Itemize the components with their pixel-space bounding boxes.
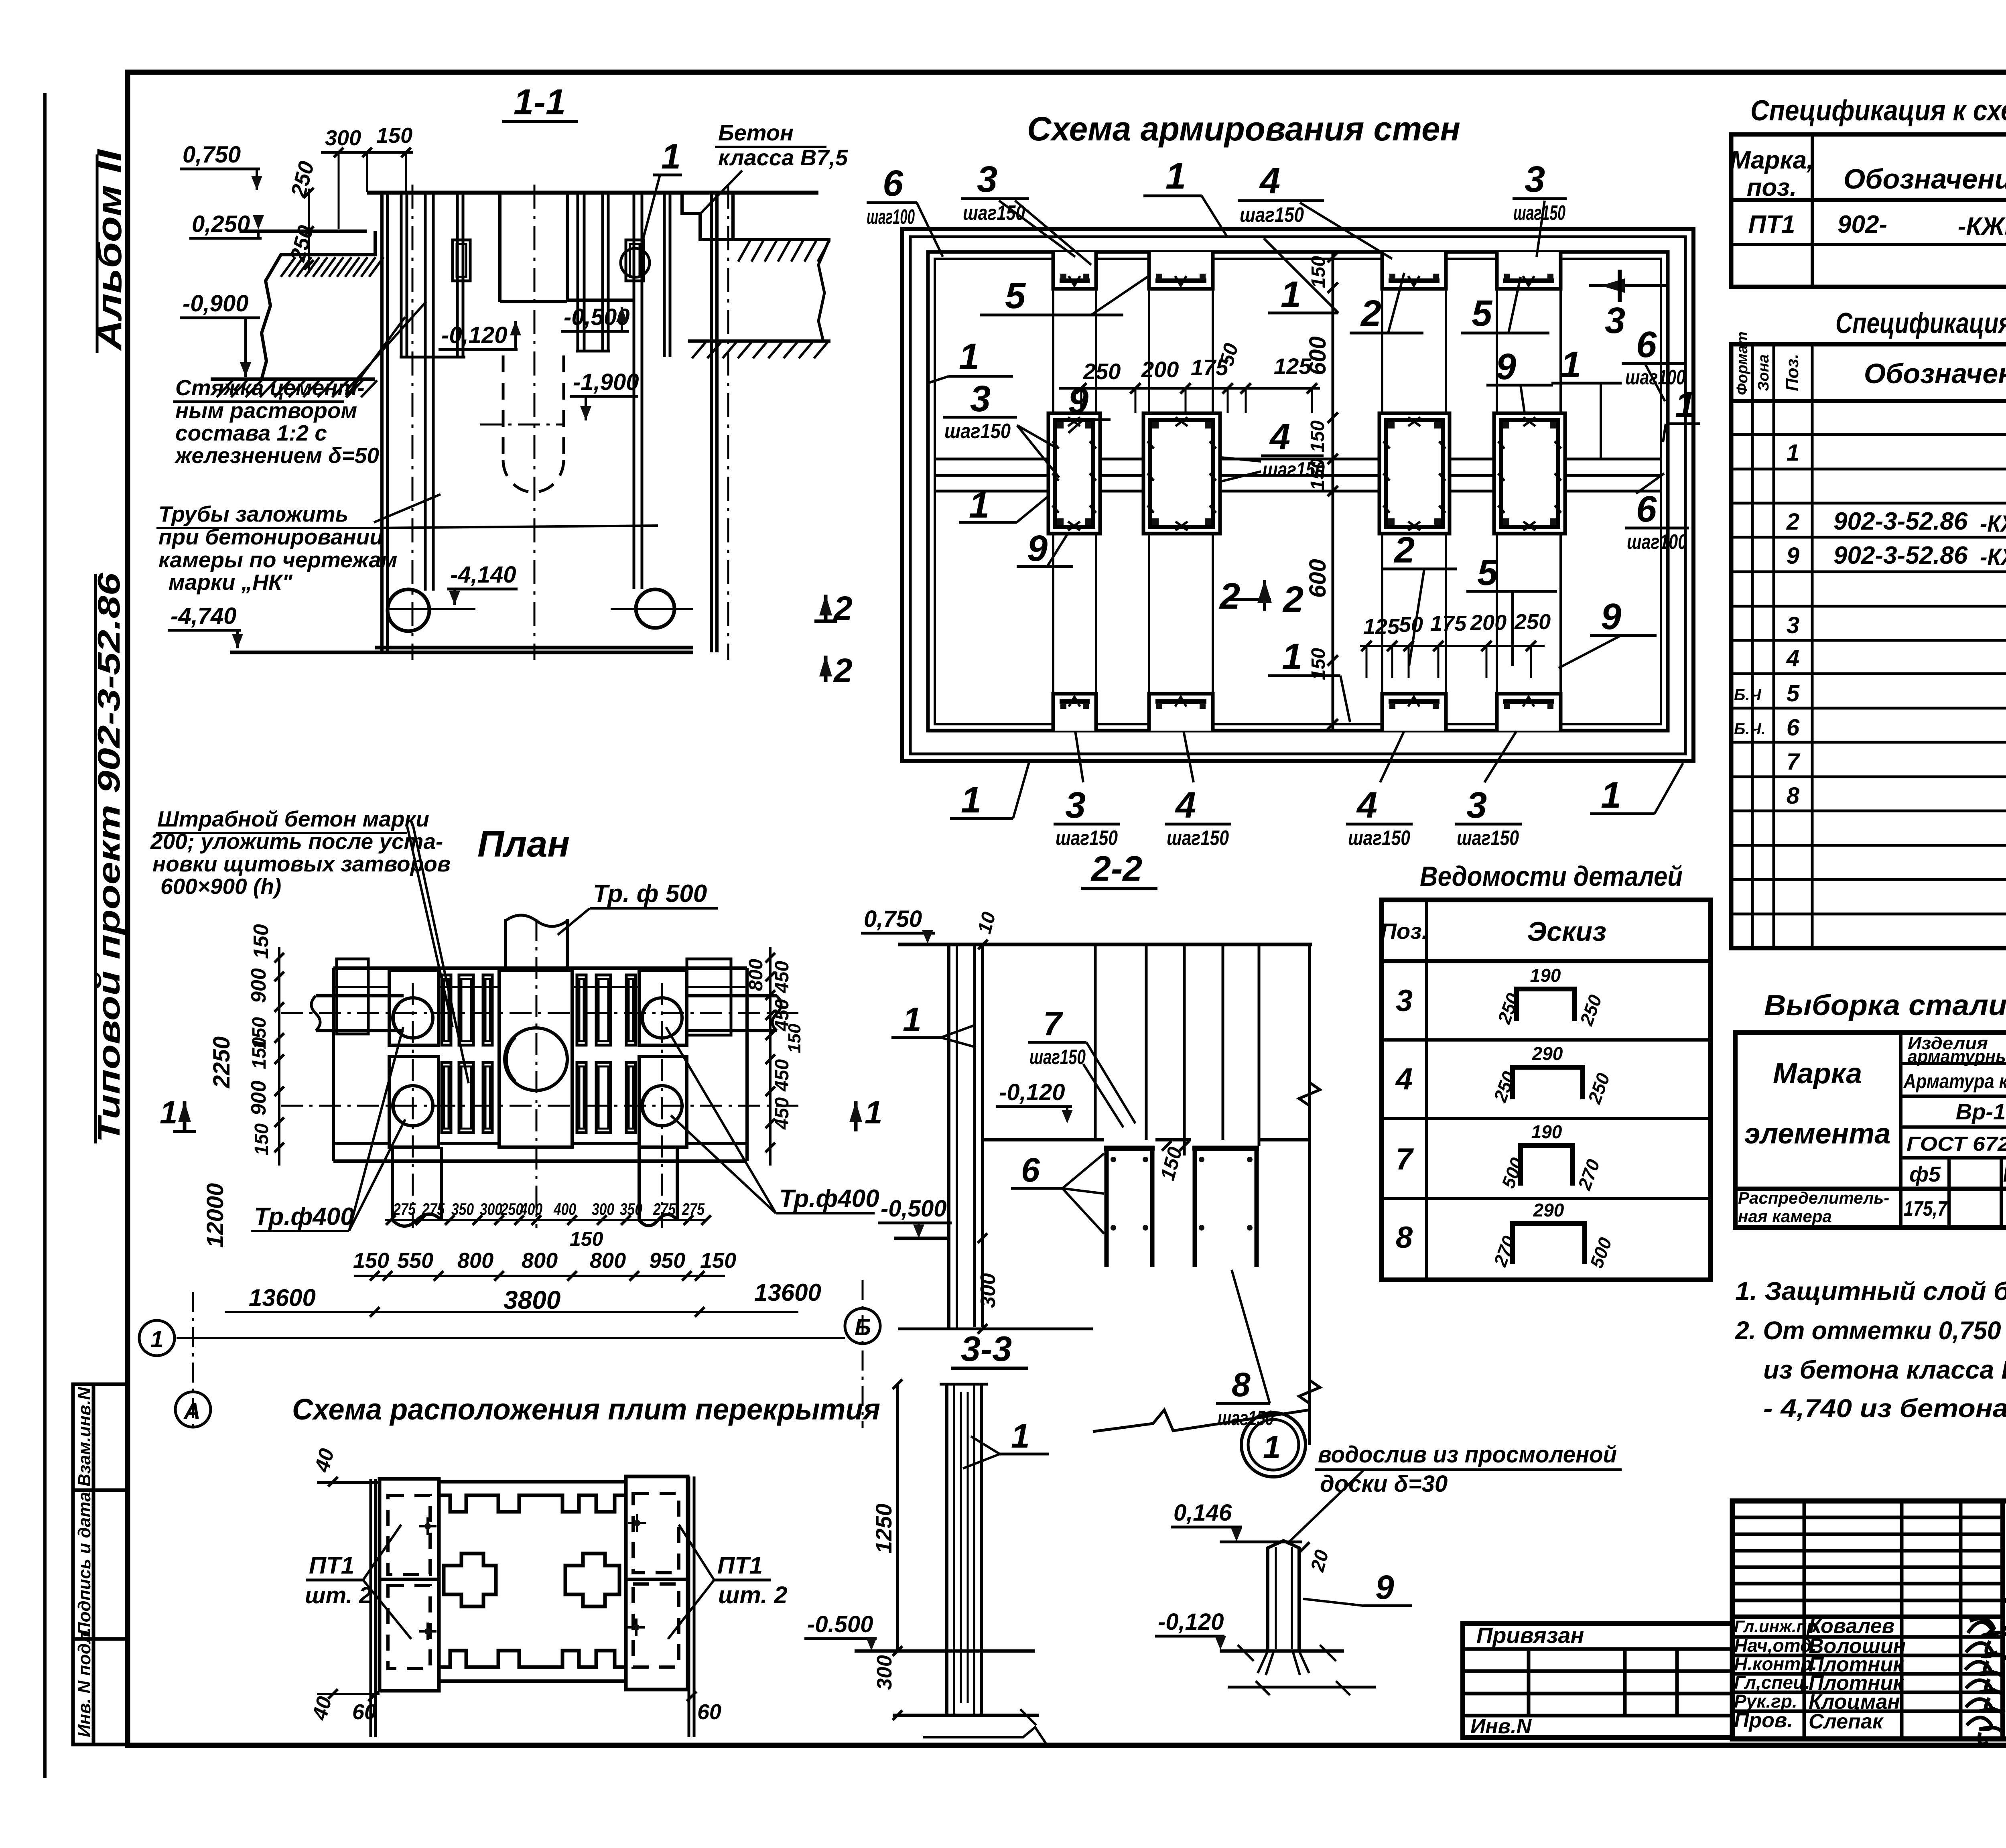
svg-text:ПТ1: ПТ1 xyxy=(309,1552,354,1579)
small pipe e xyxy=(663,193,666,357)
svg-text:Тр.ф400: Тр.ф400 xyxy=(779,1185,879,1212)
svg-text:элемента: элемента xyxy=(1744,1118,1890,1150)
svg-text:150: 150 xyxy=(1308,256,1329,288)
svg-text:2: 2 xyxy=(1360,293,1381,334)
svg-text:3: 3 xyxy=(1787,612,1799,638)
svg-text:Обозначение: Обозначение xyxy=(1844,163,2006,195)
svg-text:шаг150: шаг150 xyxy=(1029,1046,1086,1069)
svg-text:шаг150: шаг150 xyxy=(1513,201,1565,225)
svg-text:2: 2 xyxy=(1393,530,1415,571)
svg-text:60: 60 xyxy=(352,1700,376,1724)
svg-text:-КЖН-П7g: -КЖН-П7g xyxy=(1958,213,2006,240)
left horizontal pipe xyxy=(311,996,781,1226)
svg-text:900: 900 xyxy=(247,968,270,1003)
svg-text:1: 1 xyxy=(1601,775,1621,816)
svg-text:3-3: 3-3 xyxy=(961,1329,1012,1369)
svg-text:железнением δ=50: железнением δ=50 xyxy=(174,443,379,468)
svg-text:ГОСТ 6727-80: ГОСТ 6727-80 xyxy=(1907,1133,2006,1155)
svg-text:9: 9 xyxy=(1496,346,1516,387)
svg-text:150: 150 xyxy=(376,124,412,148)
svg-text:Эскиз: Эскиз xyxy=(1527,916,1606,947)
svg-text:А: А xyxy=(183,1398,201,1424)
svg-text:4: 4 xyxy=(1175,785,1196,826)
svg-text:-4,740: -4,740 xyxy=(171,603,236,629)
svg-text:ным раствором: ным раствором xyxy=(175,398,357,423)
svg-text:Н.контр.: Н.контр. xyxy=(1734,1653,1817,1674)
svg-text:150: 150 xyxy=(353,1249,389,1273)
rebar stub bottom B2 xyxy=(1149,694,1213,731)
svg-text:350: 350 xyxy=(451,1200,474,1218)
named rows xyxy=(1732,1614,2003,1619)
central block xyxy=(499,970,572,1147)
svg-text:275: 275 xyxy=(653,1200,676,1218)
svg-text:Пров.: Пров. xyxy=(1734,1709,1793,1732)
svg-text:200: 200 xyxy=(1141,357,1179,382)
svg-text:3: 3 xyxy=(1065,785,1086,826)
svg-text:200; уложить после уста-: 200; уложить после уста- xyxy=(150,829,443,854)
svg-text:4: 4 xyxy=(1395,1062,1413,1096)
svg-text:150: 150 xyxy=(570,1228,603,1250)
svg-text:9: 9 xyxy=(1068,380,1088,421)
svg-text:275: 275 xyxy=(682,1200,705,1218)
svg-text:150: 150 xyxy=(700,1249,736,1273)
svg-text:1: 1 xyxy=(150,1326,163,1352)
svg-text:6: 6 xyxy=(1787,715,1800,741)
svg-text:из бетона класса В.15; от: из бетона класса В.15; от отметки- 0,800… xyxy=(1763,1355,2006,1384)
embedded detail box M1 xyxy=(1048,413,1100,534)
svg-text:800: 800 xyxy=(457,1249,493,1273)
paper edge thin line left xyxy=(43,93,47,1778)
svg-text:800: 800 xyxy=(590,1249,626,1273)
slab surface segments xyxy=(983,1138,1310,1141)
svg-text:Ведомости деталей: Ведомости деталей xyxy=(1420,861,1683,892)
table spec camera grid xyxy=(1731,344,2006,948)
level line -1.900 dashdot xyxy=(480,424,564,426)
svg-text:-КЖИ-МН4: -КЖИ-МН4 xyxy=(1980,544,2006,570)
main stamp outer xyxy=(1732,1501,2006,1739)
svg-text:1: 1 xyxy=(1011,1417,1030,1455)
svg-text:Поз.: Поз. xyxy=(1783,354,1802,391)
svg-text:0,146: 0,146 xyxy=(1174,1500,1232,1526)
corner blocks xyxy=(389,970,439,1045)
small pipe c xyxy=(577,193,579,351)
svg-text:Слепак: Слепак xyxy=(1809,1710,1884,1733)
svg-text:2: 2 xyxy=(1282,579,1303,620)
gate valves small double rects xyxy=(442,975,636,1133)
small pipe b xyxy=(456,193,459,357)
svg-text:13600: 13600 xyxy=(249,1284,316,1311)
svg-text:6: 6 xyxy=(883,163,904,204)
svg-text:290: 290 xyxy=(1532,1043,1563,1064)
anchor feet xyxy=(1258,1651,1309,1675)
rebar stub bottom B4 xyxy=(1497,694,1561,731)
svg-text:5: 5 xyxy=(1472,293,1493,334)
ground line detail xyxy=(1220,1649,1344,1653)
svg-text:состава 1:2 с: состава 1:2 с xyxy=(175,420,327,445)
embedded plate b xyxy=(626,240,644,281)
section mark 2 right upper xyxy=(824,595,828,621)
svg-text:ная камера: ная камера xyxy=(1738,1207,1832,1226)
svg-text:4: 4 xyxy=(1786,645,1799,671)
svg-text:450: 450 xyxy=(772,1097,793,1130)
svg-text:Бетон: Бетон xyxy=(718,120,794,145)
svg-text:шаг150: шаг150 xyxy=(1457,827,1519,850)
svg-text:шаг150: шаг150 xyxy=(944,420,1011,443)
svg-text:Нач,отд.: Нач,отд. xyxy=(1734,1635,1817,1656)
svg-text:Итого: Итого xyxy=(2003,1162,2006,1186)
plus marks xyxy=(419,1517,437,1535)
svg-text:1: 1 xyxy=(1282,636,1302,677)
chamber outer wall rect xyxy=(902,229,1693,761)
svg-text:Подпись и дата: Подпись и дата xyxy=(75,1492,94,1635)
svg-text:350: 350 xyxy=(620,1200,642,1218)
svg-text:1: 1 xyxy=(903,1001,922,1038)
dashed inner rects left xyxy=(388,1493,679,1669)
plank xyxy=(1268,1541,1299,1651)
svg-text:2: 2 xyxy=(833,652,853,689)
svg-text:Б.Ч: Б.Ч xyxy=(1734,686,1761,704)
svg-text:0,750: 0,750 xyxy=(864,906,922,932)
floor line -0.5 xyxy=(894,1237,949,1240)
svg-text:Выборка стали на один элеме: Выборка стали на один элемент, кг xyxy=(1764,989,2006,1021)
svg-text:50: 50 xyxy=(1399,613,1423,637)
svg-text:-0,120: -0,120 xyxy=(1158,1609,1224,1635)
svg-text:шаг150: шаг150 xyxy=(1167,827,1229,850)
svg-text:марки „НК": марки „НК" xyxy=(169,570,293,595)
right outer wall xyxy=(710,193,713,652)
pipe circle right xyxy=(636,589,674,628)
svg-text:Распределитель-: Распределитель- xyxy=(1738,1188,1889,1207)
svg-text:902-: 902- xyxy=(1837,211,1887,238)
rebar stub top T2 xyxy=(1149,252,1213,289)
break zigzag on right line xyxy=(1299,1082,1320,1106)
svg-text:Инв. N подл.: Инв. N подл. xyxy=(75,1627,94,1737)
dim chain top-left 250 200 175 50 125 xyxy=(1059,387,1320,390)
pipe circle left xyxy=(388,589,429,631)
svg-text:800: 800 xyxy=(522,1249,558,1273)
TP box bottom xyxy=(2003,1598,2006,1603)
right niche floor xyxy=(567,299,634,302)
svg-text:шаг100: шаг100 xyxy=(1627,530,1687,554)
svg-text:7: 7 xyxy=(1396,1142,1414,1176)
svg-text:1: 1 xyxy=(1281,274,1301,315)
step top right xyxy=(682,193,733,240)
svg-text:9: 9 xyxy=(1601,596,1621,637)
svg-text:2. От отметки 0,750 до отмет: 2. От отметки 0,750 до отметки- 0,800 ка… xyxy=(1735,1316,2006,1345)
svg-text:класса В7,5: класса В7,5 xyxy=(718,145,848,170)
svg-text:3: 3 xyxy=(1525,159,1545,200)
svg-text:8: 8 xyxy=(1396,1220,1413,1255)
svg-text:6: 6 xyxy=(1636,489,1657,530)
svg-text:450: 450 xyxy=(772,1059,793,1092)
svg-text:Взам.инв.N: Взам.инв.N xyxy=(75,1387,94,1487)
line through circles xyxy=(388,608,475,610)
left top pipe opening rect xyxy=(337,959,368,1034)
wall verticals xyxy=(940,1384,988,1715)
svg-text:1: 1 xyxy=(1165,156,1186,197)
svg-text:-0,900: -0,900 xyxy=(183,290,248,317)
svg-text:шаг150: шаг150 xyxy=(1263,458,1325,481)
svg-text:275: 275 xyxy=(393,1200,416,1218)
svg-text:290: 290 xyxy=(1533,1200,1564,1220)
svg-text:3: 3 xyxy=(977,159,997,200)
svg-text:200: 200 xyxy=(1470,611,1507,635)
svg-text:1: 1 xyxy=(865,1095,883,1130)
svg-text:1: 1 xyxy=(1561,344,1581,385)
svg-text:9: 9 xyxy=(1027,528,1048,569)
svg-text:Инв.N: Инв.N xyxy=(1470,1715,1532,1738)
svg-text:12000: 12000 xyxy=(202,1183,228,1248)
svg-text:водослив из просмоленой: водослив из просмоленой xyxy=(1318,1442,1617,1468)
svg-text:Схема расположения плит пере: Схема расположения плит перекрытия xyxy=(292,1393,880,1426)
dashed centerlines plan xyxy=(281,919,798,1228)
svg-text:Арматура класса: Арматура класса xyxy=(1903,1070,2006,1093)
svg-text:9: 9 xyxy=(1375,1568,1394,1606)
svg-text:Привязан: Привязан xyxy=(1476,1623,1584,1648)
pipe pair right xyxy=(633,193,636,589)
svg-text:камеры по чертежам: камеры по чертежам xyxy=(158,547,397,572)
svg-text:902-3-52.86: 902-3-52.86 xyxy=(1833,508,1968,535)
svg-text:2: 2 xyxy=(833,589,853,627)
svg-text:2: 2 xyxy=(1786,509,1799,535)
svg-text:Марка: Марка xyxy=(1773,1058,1862,1090)
svg-text:5: 5 xyxy=(1005,275,1026,316)
C channel 2 xyxy=(1192,1146,1259,1151)
svg-text:Б.Ч.: Б.Ч. xyxy=(1734,720,1766,738)
left plate PT1 xyxy=(380,1479,439,1691)
svg-text:шаг150: шаг150 xyxy=(1348,827,1410,850)
section 1-1 walls and pipes xyxy=(382,193,733,652)
svg-text:190: 190 xyxy=(1530,965,1561,986)
embedded detail box M3 xyxy=(1379,413,1450,534)
svg-text:шт. 2: шт. 2 xyxy=(305,1582,372,1608)
svg-text:3: 3 xyxy=(1466,785,1487,826)
section main lines xyxy=(211,193,818,379)
left wall verticals xyxy=(949,944,983,1329)
dim chain middle vertical 150/600 xyxy=(1328,252,1338,262)
rebar stub bottom B1 xyxy=(1053,694,1096,731)
small pipe d xyxy=(601,193,604,351)
svg-text:ПТ1: ПТ1 xyxy=(1748,211,1795,238)
svg-text:-4,140: -4,140 xyxy=(450,562,516,588)
top slab line xyxy=(898,943,1312,946)
svg-text:-0,120: -0,120 xyxy=(441,322,507,348)
svg-text:6: 6 xyxy=(1021,1151,1040,1189)
svg-text:550: 550 xyxy=(397,1249,433,1273)
chamber outline plan xyxy=(333,959,747,1161)
svg-text:1: 1 xyxy=(961,780,981,820)
svg-text:Гл,спец.: Гл,спец. xyxy=(1734,1672,1810,1693)
svg-text:-КЖИ-МНЗ: -КЖИ-МНЗ xyxy=(1980,511,2006,537)
svg-text:600: 600 xyxy=(1305,336,1331,375)
tank bottom slab xyxy=(375,646,693,650)
svg-text:шаг100: шаг100 xyxy=(867,205,915,229)
rebar stub bottom B3 xyxy=(1382,694,1446,731)
svg-text:1: 1 xyxy=(959,336,979,377)
svg-text:-0,120: -0,120 xyxy=(999,1079,1065,1105)
channel dots xyxy=(1111,1157,1116,1162)
svg-text:3: 3 xyxy=(1605,300,1625,341)
detail circle 1 xyxy=(621,248,650,277)
svg-text:шт. 2: шт. 2 xyxy=(718,1582,788,1608)
svg-text:600: 600 xyxy=(1305,559,1331,598)
embedded detail box M2 xyxy=(1143,413,1220,534)
svg-text:1: 1 xyxy=(1675,384,1695,425)
bottom break line xyxy=(1093,1410,1310,1432)
svg-text:275: 275 xyxy=(422,1200,445,1218)
svg-text:400: 400 xyxy=(520,1200,542,1218)
svg-text:1: 1 xyxy=(969,485,989,526)
svg-text:190: 190 xyxy=(1531,1121,1562,1142)
svg-text:Формат: Формат xyxy=(1734,331,1751,395)
dim chain bottom-right 125 50 175 200 250 xyxy=(1360,645,1545,647)
svg-text:1: 1 xyxy=(1263,1429,1281,1465)
svg-text:7: 7 xyxy=(1043,1005,1063,1042)
svg-text:7: 7 xyxy=(1787,749,1801,775)
svg-text:Стяжка цемент-: Стяжка цемент- xyxy=(175,375,365,400)
svg-text:900: 900 xyxy=(247,1080,270,1115)
pipe pair left xyxy=(424,193,427,591)
svg-text:8: 8 xyxy=(1787,783,1800,809)
svg-text:Вр-1: Вр-1 xyxy=(1956,1099,2006,1124)
svg-text:шаг150: шаг150 xyxy=(1240,203,1304,227)
table spec plit grid xyxy=(1731,134,2006,287)
svg-text:ф5: ф5 xyxy=(1909,1162,1941,1186)
chamber inner wall face xyxy=(928,252,1668,731)
right plate PT1 xyxy=(626,1476,688,1690)
lower line xyxy=(1228,1686,1376,1689)
svg-text:4: 4 xyxy=(1269,416,1290,457)
C channel 1 xyxy=(1104,1146,1259,1267)
rotated margin texts xyxy=(75,148,129,1737)
svg-text:1: 1 xyxy=(1787,440,1799,466)
svg-text:-0,500: -0,500 xyxy=(881,1196,946,1222)
central circle xyxy=(505,1028,567,1091)
svg-text:5: 5 xyxy=(1477,552,1498,593)
svg-text:1. Защитный слой бетона для: 1. Защитный слой бетона для арматуры при… xyxy=(1735,1277,2006,1306)
svg-text:3: 3 xyxy=(1396,984,1413,1018)
svg-text:Гл.инж.пр: Гл.инж.пр xyxy=(1734,1617,1817,1636)
svg-text:0,750: 0,750 xyxy=(183,142,241,168)
embedded detail box M4 xyxy=(1494,413,1565,534)
svg-text:Штрабной бетон марки: Штрабной бетон марки xyxy=(157,806,429,831)
svg-text:150: 150 xyxy=(785,1024,804,1053)
svg-text:0,250: 0,250 xyxy=(192,211,250,237)
svg-text:8: 8 xyxy=(1232,1366,1251,1403)
svg-text:150: 150 xyxy=(1307,420,1328,453)
dashed U shape xyxy=(503,355,564,492)
centerlines dash-dot xyxy=(412,185,728,660)
foundation lines xyxy=(898,1328,1093,1330)
section mark 2 bottom-mid xyxy=(1229,598,1271,601)
vertical pipe tr500 xyxy=(506,915,567,968)
small pipe a xyxy=(400,193,403,357)
svg-text:Поз.: Поз. xyxy=(1381,918,1428,944)
svg-text:300: 300 xyxy=(873,1655,896,1690)
svg-text:800: 800 xyxy=(745,959,767,991)
svg-text:3800: 3800 xyxy=(504,1285,560,1314)
svg-text:Трубы заложить: Трубы заложить xyxy=(158,502,348,526)
upper small rows xyxy=(1732,1516,2003,1519)
wall niche connector lines xyxy=(1053,289,1561,694)
left margin mini table xyxy=(73,1384,128,1744)
svg-text:План: План xyxy=(477,824,570,865)
personnel grid cols xyxy=(1803,1501,1806,1739)
svg-text:3: 3 xyxy=(970,378,991,419)
svg-text:1: 1 xyxy=(661,136,681,176)
embedded plate a xyxy=(453,240,470,281)
svg-text:300: 300 xyxy=(977,1273,1000,1308)
middle dividing vertical xyxy=(1332,252,1334,731)
bottom line with break xyxy=(893,1714,1039,1717)
svg-text:Марка,: Марка, xyxy=(1730,146,1814,174)
svg-text:Тр.ф400: Тр.ф400 xyxy=(254,1203,354,1231)
svg-text:Схема армирования стен: Схема армирования стен xyxy=(1027,110,1460,148)
middle key shapes xyxy=(444,1554,496,1606)
svg-text:при бетонировании: при бетонировании xyxy=(158,524,383,549)
svg-text:-0.500: -0.500 xyxy=(807,1611,873,1637)
signatures scribbles xyxy=(1965,1619,2006,1744)
svg-text:950: 950 xyxy=(649,1249,685,1273)
left outer wall xyxy=(380,193,384,652)
rebar stub top T3 xyxy=(1382,252,1446,289)
wall bars verticals xyxy=(1095,944,1310,1445)
svg-text:1250: 1250 xyxy=(871,1503,896,1554)
recess floor xyxy=(500,300,567,303)
svg-text:250: 250 xyxy=(1514,610,1551,634)
svg-text:300: 300 xyxy=(480,1200,502,1218)
recess left wall xyxy=(498,193,501,302)
svg-text:125: 125 xyxy=(1363,615,1400,639)
svg-text:300: 300 xyxy=(592,1200,614,1218)
section mark 3 top-right xyxy=(1589,284,1668,287)
svg-text:13600: 13600 xyxy=(754,1279,821,1306)
svg-text:- 4,740 из бетона класса: - 4,740 из бетона класса В7,5. xyxy=(1763,1394,2006,1423)
svg-text:1: 1 xyxy=(160,1095,178,1130)
svg-text:902-3-52.86: 902-3-52.86 xyxy=(1833,542,1968,569)
svg-text:450: 450 xyxy=(772,961,793,993)
svg-text:Спецификация камеры РКп 1: Спецификация камеры РКп 1 xyxy=(1835,307,2006,339)
svg-text:поз.: поз. xyxy=(1747,174,1797,201)
svg-text:Спецификация к схеме располож: Спецификация к схеме расположения плит п… xyxy=(1750,95,2006,127)
rebar stub top T4 xyxy=(1497,252,1561,289)
svg-text:150: 150 xyxy=(249,1037,270,1069)
svg-text:175,7: 175,7 xyxy=(1904,1197,1948,1220)
recess right wall xyxy=(566,193,569,300)
detail circle 1 xyxy=(1241,1413,1306,1477)
svg-text:6: 6 xyxy=(1636,324,1657,365)
ground line xyxy=(855,1649,1035,1653)
circles tr400 xyxy=(393,998,682,1126)
svg-text:1-1: 1-1 xyxy=(514,82,566,122)
svg-text:арматурные: арматурные xyxy=(1908,1047,2006,1066)
svg-text:300: 300 xyxy=(325,126,361,150)
svg-text:-1,900: -1,900 xyxy=(573,369,639,395)
svg-text:Зона: Зона xyxy=(1755,354,1772,391)
svg-text:шаг150: шаг150 xyxy=(1056,827,1118,850)
rebar stub top T1 xyxy=(1053,252,1096,289)
svg-text:60: 60 xyxy=(697,1700,721,1724)
svg-text:2250: 2250 xyxy=(209,1036,235,1088)
middle span castellated outline xyxy=(439,1482,626,1681)
svg-text:175: 175 xyxy=(1430,611,1467,636)
svg-text:2-2: 2-2 xyxy=(1090,849,1142,888)
plan dimensions xyxy=(139,924,883,1428)
svg-text:ПТ1: ПТ1 xyxy=(717,1552,763,1579)
down pipes xyxy=(391,1147,394,1220)
svg-text:Тр. ф 500: Тр. ф 500 xyxy=(593,880,707,908)
middle wall band lines xyxy=(935,458,1661,461)
